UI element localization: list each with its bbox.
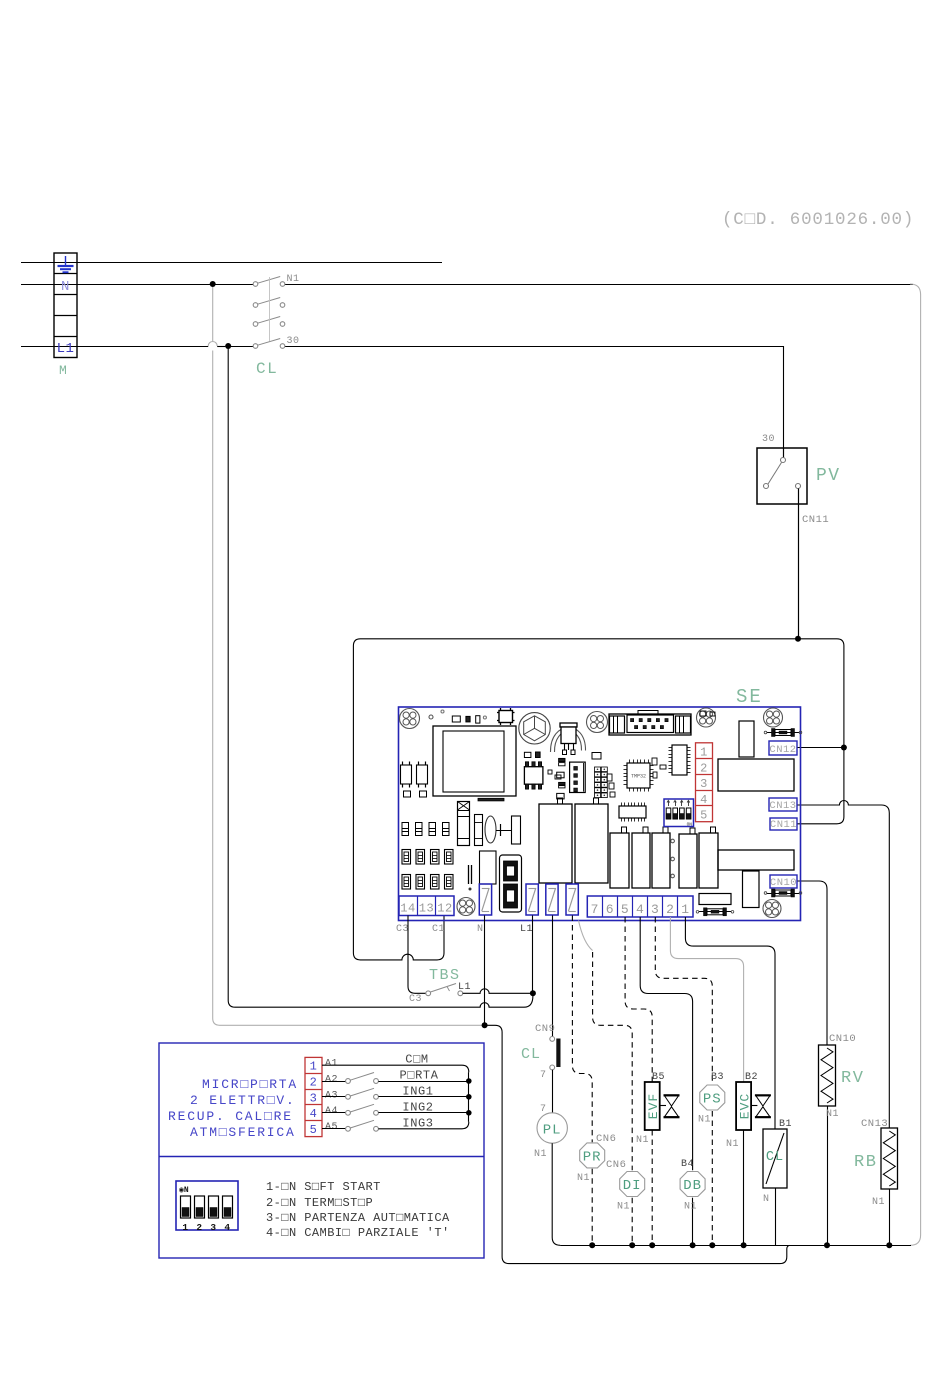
svg-text:1: 1 (700, 746, 708, 760)
svg-text:N1: N1 (577, 1173, 590, 1184)
svg-text:N: N (477, 924, 484, 935)
svg-text:N1: N1 (826, 1109, 839, 1120)
svg-text:N1: N1 (684, 1202, 697, 1213)
svg-text:4: 4 (224, 1222, 230, 1233)
svg-text:MICR□P□RTA: MICR□P□RTA (202, 1077, 298, 1092)
svg-text:N1: N1 (534, 1149, 547, 1160)
svg-text:CN11: CN11 (770, 819, 797, 831)
svg-text:CN13: CN13 (769, 800, 796, 812)
svg-text:2: 2 (700, 761, 708, 775)
svg-text:3: 3 (651, 902, 659, 917)
svg-text:P□RTA: P□RTA (399, 1069, 438, 1083)
svg-text:ING3: ING3 (402, 1116, 433, 1130)
svg-text:2: 2 (196, 1222, 202, 1233)
svg-text:N: N (763, 1194, 770, 1205)
svg-text:CL: CL (766, 1150, 784, 1165)
svg-text:30: 30 (762, 434, 775, 445)
svg-text:CL: CL (521, 1046, 541, 1063)
svg-text:EVF: EVF (646, 1093, 661, 1119)
svg-text:N1: N1 (617, 1202, 630, 1213)
svg-text:C3: C3 (409, 994, 422, 1005)
svg-text:(C□D. 6001026.00): (C□D. 6001026.00) (722, 210, 914, 230)
svg-text:1: 1 (182, 1222, 188, 1233)
svg-text:4: 4 (700, 793, 708, 807)
svg-text:1: 1 (681, 902, 689, 917)
svg-text:DB: DB (683, 1178, 702, 1194)
svg-text:3: 3 (210, 1222, 216, 1233)
svg-text:CN6: CN6 (606, 1159, 626, 1171)
svg-text:L1: L1 (57, 341, 75, 357)
svg-text:2: 2 (666, 902, 674, 917)
svg-text:12: 12 (437, 902, 452, 916)
svg-text:DI: DI (623, 1178, 642, 1194)
svg-text:3-□N PARTENZA AUT□MATICA: 3-□N PARTENZA AUT□MATICA (266, 1211, 450, 1225)
svg-text:4: 4 (636, 902, 644, 917)
svg-text:A4: A4 (325, 1106, 338, 1117)
svg-text:PL: PL (543, 1123, 562, 1139)
svg-text:CN9: CN9 (535, 1023, 555, 1035)
svg-text:CN13: CN13 (861, 1118, 888, 1130)
svg-text:2-□N TERM□ST□P: 2-□N TERM□ST□P (266, 1196, 373, 1210)
svg-text:◉N: ◉N (179, 1186, 189, 1195)
svg-text:2: 2 (310, 1076, 318, 1090)
svg-text:ON: ON (687, 822, 693, 828)
svg-text:1: 1 (310, 1060, 318, 1074)
svg-text:7: 7 (540, 1104, 547, 1115)
svg-text:B1: B1 (779, 1119, 792, 1130)
svg-text:N1: N1 (726, 1139, 739, 1150)
svg-text:14: 14 (400, 902, 415, 916)
svg-text:CN11: CN11 (802, 514, 829, 526)
svg-text:TBS: TBS (429, 967, 461, 984)
svg-text:L1: L1 (458, 982, 471, 993)
svg-text:30: 30 (287, 336, 300, 347)
svg-text:1-□N S□FT START: 1-□N S□FT START (266, 1180, 381, 1194)
svg-text:N1: N1 (698, 1115, 711, 1126)
svg-text:N1: N1 (872, 1197, 885, 1208)
svg-text:RV: RV (841, 1069, 864, 1088)
svg-text:ING2: ING2 (402, 1100, 433, 1114)
svg-text:A2: A2 (325, 1075, 338, 1086)
svg-text:PS: PS (703, 1092, 722, 1108)
svg-text:CN6: CN6 (596, 1133, 616, 1145)
svg-text:TMP32: TMP32 (631, 774, 646, 780)
svg-text:ING1: ING1 (402, 1084, 433, 1098)
svg-text:N1: N1 (636, 1135, 649, 1146)
svg-text:N: N (61, 279, 70, 295)
svg-text:B5: B5 (652, 1072, 665, 1083)
svg-text:7: 7 (540, 1070, 547, 1081)
svg-text:6: 6 (606, 902, 614, 917)
svg-text:5: 5 (310, 1123, 318, 1137)
svg-text:M: M (59, 363, 67, 378)
svg-text:SE: SE (736, 686, 763, 708)
svg-text:RB: RB (854, 1153, 877, 1172)
svg-text:B3: B3 (711, 1072, 724, 1083)
svg-text:CN10: CN10 (829, 1033, 856, 1045)
svg-text:C3: C3 (396, 924, 409, 935)
svg-text:13: 13 (419, 902, 434, 916)
svg-text:4: 4 (310, 1107, 318, 1121)
svg-text:PV: PV (816, 466, 841, 486)
svg-text:A3: A3 (325, 1090, 338, 1101)
svg-text:C□M: C□M (405, 1053, 428, 1067)
svg-text:N1: N1 (287, 274, 300, 285)
svg-text:A1: A1 (325, 1059, 338, 1070)
svg-text:B2: B2 (745, 1072, 758, 1083)
svg-text:5: 5 (700, 809, 708, 823)
svg-text:CN10: CN10 (770, 877, 797, 889)
svg-text:4-□N CAMBI□ PARZIALE 'T': 4-□N CAMBI□ PARZIALE 'T' (266, 1226, 450, 1240)
svg-text:7: 7 (591, 902, 599, 917)
svg-text:5: 5 (621, 902, 629, 917)
svg-text:ATM□SFERICA: ATM□SFERICA (190, 1125, 296, 1140)
svg-text:EVC: EVC (737, 1093, 752, 1119)
svg-text:C1: C1 (432, 924, 445, 935)
svg-text:2 ELETTR□V.: 2 ELETTR□V. (190, 1093, 296, 1108)
svg-text:PR: PR (583, 1150, 602, 1166)
svg-text:CL: CL (256, 360, 278, 378)
svg-text:CN12: CN12 (769, 744, 796, 756)
svg-text:3: 3 (700, 777, 708, 791)
svg-text:L1: L1 (520, 924, 533, 935)
svg-text:3: 3 (310, 1091, 318, 1105)
svg-text:RECUP. CAL□RE: RECUP. CAL□RE (168, 1109, 293, 1124)
svg-text:B4: B4 (681, 1159, 694, 1170)
svg-text:A5: A5 (325, 1122, 338, 1133)
